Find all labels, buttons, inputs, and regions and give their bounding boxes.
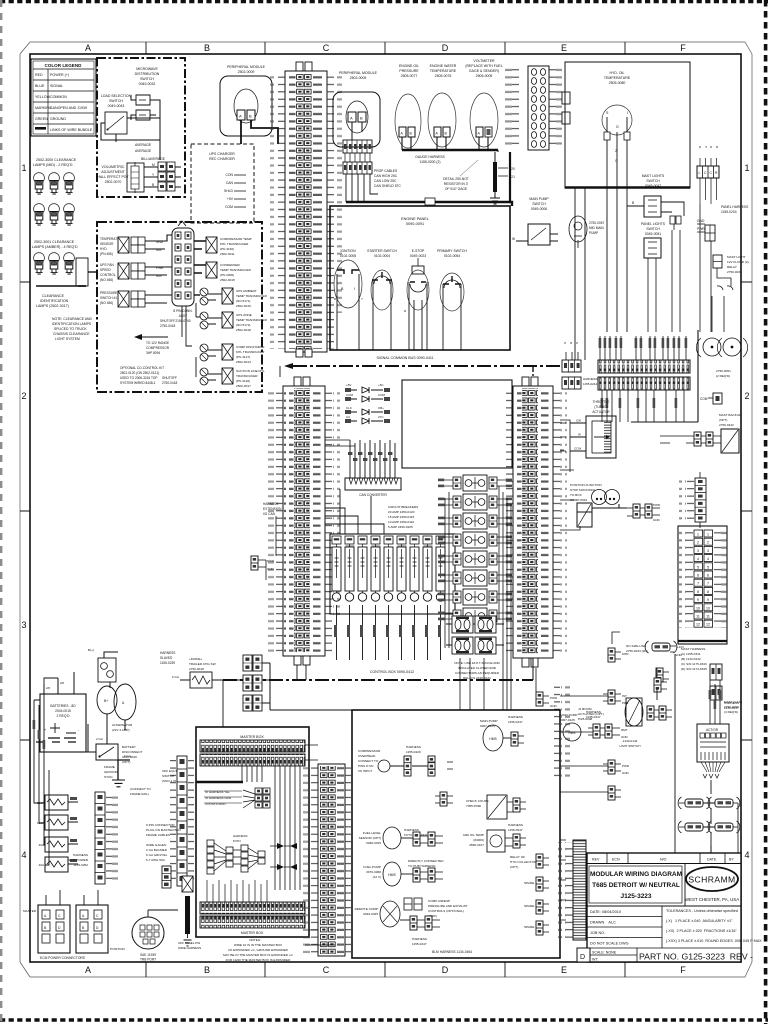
fuel level sensor	[383, 827, 401, 849]
svg-text:(PN 4160): (PN 4160)	[220, 247, 234, 251]
svg-text:SAE J1939: SAE J1939	[140, 953, 156, 957]
svg-text:D: D	[442, 965, 449, 975]
svg-text:COMPRESSOR TEMP: COMPRESSOR TEMP	[220, 237, 252, 241]
svg-text:NO SIZE LINK: NO SIZE LINK	[626, 644, 647, 648]
svg-text:(4 REQ'D): (4 REQ'D)	[724, 710, 738, 714]
svg-text:2502-0070: 2502-0070	[105, 180, 122, 184]
svg-text:GND: GND	[622, 771, 630, 775]
position function stop	[570, 483, 661, 527]
svg-text:TEMPERATURE: TEMPERATURE	[430, 69, 457, 73]
svg-text:C21: C21	[509, 175, 515, 179]
svg-text:2502-3000 CLEARANCE: 2502-3000 CLEARANCE	[36, 158, 77, 162]
svg-text:9: 9	[697, 598, 699, 602]
svg-text:8: 8	[697, 590, 699, 594]
svg-text:ALTERNATOR: ALTERNATOR	[112, 723, 133, 727]
svg-text:DATE: DATE	[707, 858, 717, 862]
svg-text:EXTENSION: EXTENSION	[263, 507, 282, 511]
svg-text:(OPT): (OPT)	[719, 418, 727, 422]
suction line transducer	[200, 368, 208, 376]
trailer chg diode fuse	[172, 657, 223, 688]
svg-text:6 GA GRN/YEL: 6 GA GRN/YEL	[146, 853, 168, 857]
svg-text:IDENTIFICATION LAMPS: IDENTIFICATION LAMPS	[52, 322, 92, 326]
svg-text:UPS ZONE: UPS ZONE	[236, 313, 252, 317]
svg-text:20 AMP 2450-0120: 20 AMP 2450-0120	[388, 510, 415, 514]
svg-text:RELAY: RELAY	[727, 265, 737, 269]
svg-text:CW: CW	[576, 419, 581, 423]
D-section box	[352, 710, 560, 958]
top connector rows	[200, 740, 305, 752]
svg-text:ENGINE WATER: ENGINE WATER	[430, 64, 457, 68]
svg-text:HARNESS: HARNESS	[160, 651, 175, 655]
svg-text:MTL TRANSDUCER: MTL TRANSDUCER	[236, 350, 265, 354]
svg-text:HARNESS: HARNESS	[263, 502, 278, 506]
svg-text:UPS FAN: UPS FAN	[100, 263, 114, 267]
svg-text:E: E	[561, 965, 567, 975]
svg-text:FRAME CABLES: FRAME CABLES	[146, 833, 170, 837]
svg-text:2502-0018: 2502-0018	[236, 328, 251, 332]
svg-text:8 PIN CONN.: 8 PIN CONN.	[173, 309, 192, 313]
gauge: engine oil pressure	[395, 64, 421, 150]
svg-text:3: 3	[21, 620, 26, 630]
2502-0007 marker	[608, 648, 615, 662]
extra terminal strip wires	[615, 336, 681, 360]
comp discharge transducer	[200, 344, 208, 352]
svg-text:12V FLOOD (2): 12V FLOOD (2)	[727, 260, 749, 264]
svg-text:B: B	[632, 201, 634, 205]
svg-text:HYD COLLECTOR: HYD COLLECTOR	[510, 860, 537, 864]
title block	[577, 853, 762, 962]
diode row D1	[345, 383, 390, 393]
svg-text:HYD: HYD	[100, 247, 107, 251]
svg-text:CAN: CAN	[226, 181, 234, 185]
UPS charger dashed box	[191, 144, 254, 223]
alternator	[96, 684, 136, 744]
svg-text:1: 1	[21, 163, 26, 173]
svg-text:CAN LOW 25C: CAN LOW 25C	[374, 179, 397, 183]
svg-text:DIRECTLY CONNECTED: DIRECTLY CONNECTED	[408, 859, 444, 863]
svg-text:2505-0005: 2505-0005	[476, 74, 493, 78]
svg-text:PWR: PWR	[622, 764, 630, 768]
svg-text:HARNESS: HARNESS	[412, 937, 427, 941]
svg-text:12: 12	[696, 623, 700, 627]
svg-text:6: 6	[707, 574, 709, 578]
svg-text:0090-0091: 0090-0091	[406, 222, 424, 226]
svg-text:2: 2	[21, 391, 26, 401]
svg-text:CLK: CLK	[346, 406, 352, 410]
svg-text:2750-0018: 2750-0018	[189, 667, 204, 671]
svg-text:B: B	[569, 342, 573, 344]
svg-text:TEMP TRANSDUCER: TEMP TRANSDUCER	[236, 294, 268, 298]
svg-text:2502-0011: 2502-0011	[220, 252, 235, 256]
svg-text:D: D	[442, 43, 449, 53]
svg-text:2750-0067: 2750-0067	[589, 221, 604, 225]
optional kit note	[120, 366, 164, 385]
svg-text:NOTE: USE 18-8 T-SPLICE AND: NOTE: USE 18-8 T-SPLICE AND	[454, 661, 500, 665]
svg-text:0049-0042: 0049-0042	[645, 184, 661, 188]
engine panel box	[330, 206, 510, 350]
clearance lamps 2502-3000 (mid)	[32, 158, 78, 249]
svg-text:(.XXX) 3 PLACE ±.010 ROUND ED: (.XXX) 3 PLACE ±.010 ROUND EDGES .005/.0…	[666, 939, 762, 943]
svg-text:BLUE: BLUE	[35, 84, 45, 88]
svg-text:B: B	[249, 114, 252, 119]
svg-text:ECM POWER CONNECTORS: ECM POWER CONNECTORS	[40, 956, 86, 960]
svg-text:4: 4	[21, 850, 26, 860]
svg-text:HYD. OIL: HYD. OIL	[610, 71, 625, 75]
9-pin deutsch notes	[146, 823, 181, 862]
svg-text:2: 2	[707, 541, 709, 545]
svg-text:MAST BACKUP: MAST BACKUP	[719, 413, 741, 417]
svg-text:SWITCH: SWITCH	[646, 227, 660, 231]
svg-text:WIRE 10 IS IN THE MASTER BOX: WIRE 10 IS IN THE MASTER BOX	[234, 943, 282, 947]
compressor temp transducer	[194, 241, 206, 249]
svg-text:F: F	[680, 965, 686, 975]
svg-text:2502-0009: 2502-0009	[350, 76, 367, 80]
svg-text:T685 DETROIT W/ NEUTRAL: T685 DETROIT W/ NEUTRAL	[592, 882, 680, 889]
svg-text:HARNESS: HARNESS	[724, 701, 739, 705]
svg-text:STOP MOUNTED: STOP MOUNTED	[570, 488, 596, 492]
svg-text:0049-0032: 0049-0032	[139, 82, 156, 86]
svg-text:TRANSDUCER: TRANSDUCER	[236, 374, 258, 378]
svg-text:2004-0015: 2004-0015	[55, 709, 71, 713]
svg-text:SPARE: SPARE	[524, 925, 534, 929]
feed wires into control box	[325, 489, 384, 534]
remote compressor	[380, 901, 400, 927]
svg-text:WT:: WT:	[592, 958, 598, 962]
svg-text:SPARE: SPARE	[524, 904, 534, 908]
svg-text:LAMPS (2502-3017): LAMPS (2502-3017)	[36, 304, 69, 308]
fuel pump	[383, 862, 401, 886]
svg-text:MODULAR WIRING DIAGRAM: MODULAR WIRING DIAGRAM	[590, 871, 682, 878]
battery disconnect	[86, 724, 143, 764]
svg-text:SPEED: SPEED	[100, 268, 112, 272]
svg-text:15 AMP 2450-0115: 15 AMP 2450-0115	[388, 515, 414, 519]
svg-text:1: 1	[697, 533, 699, 537]
svg-text:BATTERIES - 8D: BATTERIES - 8D	[50, 704, 76, 708]
svg-text:6 GA: 6 GA	[124, 754, 131, 758]
svg-text:PINS 8 ON: PINS 8 ON	[358, 764, 373, 768]
svg-text:WIRE HARNESS: WIRE HARNESS	[178, 946, 201, 950]
relay hyd collector	[510, 855, 537, 869]
svg-text:IGNITION: IGNITION	[340, 249, 356, 253]
panel connector L C C R	[697, 146, 749, 241]
svg-text:B: B	[204, 43, 210, 53]
svg-text:(.XX) 2 PLACE ±.020 FRACTION: (.XX) 2 PLACE ±.020 FRACTIONS ±1/16"	[666, 929, 737, 933]
svg-text:ACT/OR: ACT/OR	[706, 728, 719, 732]
svg-text:DISTRIBUTION: DISTRIBUTION	[135, 72, 160, 76]
svg-text:OVERHEAD: OVERHEAD	[358, 754, 376, 758]
svg-text:5: 5	[697, 565, 699, 569]
svg-text:0102-0004: 0102-0004	[374, 254, 390, 258]
svg-text:E-STOP: E-STOP	[412, 249, 425, 253]
svg-text:LIMIT SWITCH: LIMIT SWITCH	[620, 744, 641, 748]
pot connector grid	[158, 162, 175, 191]
svg-text:7055-P090: 7055-P090	[466, 804, 481, 808]
svg-text:RED: RED	[35, 73, 43, 77]
svg-text:B: B	[152, 183, 154, 187]
svg-text:SIGNAL COMMON BUS 0090-0411: SIGNAL COMMON BUS 0090-0411	[376, 356, 433, 360]
svg-text:IDENTIFICATION: IDENTIFICATION	[40, 299, 69, 303]
terminal strip TB1	[598, 360, 690, 373]
svg-text:CONTROL BOX 0090-0412: CONTROL BOX 0090-0412	[370, 670, 414, 674]
svg-text:C: C	[323, 43, 330, 53]
bottom connector rows	[200, 902, 305, 914]
gauge: voltmeter (replace with fuel gage)	[465, 59, 502, 150]
svg-text:SENSOR: SENSOR	[100, 242, 114, 246]
svg-text:(D) S/N 1173-0345: (D) S/N 1173-0345	[681, 667, 707, 671]
stubs below	[242, 766, 262, 782]
svg-text:COLOR LEGEND: COLOR LEGEND	[44, 63, 82, 68]
svg-text:4: 4	[697, 557, 699, 561]
signal common bus	[284, 356, 560, 378]
wires sensors to conn	[155, 235, 172, 303]
wires D box to E column	[560, 696, 608, 920]
svg-text:RELAY OF: RELAY OF	[510, 855, 525, 859]
svg-text:DRAWN ALC: DRAWN ALC	[590, 921, 616, 925]
svg-text:TOLERANCES - Unless otherwise: TOLERANCES - Unless otherwise specified	[666, 909, 738, 913]
fan-out block 1	[243, 790, 255, 808]
svg-text:A: A	[85, 965, 91, 975]
svg-text:SHLD: SHLD	[224, 189, 234, 193]
svg-text:2502-0015: 2502-0015	[220, 278, 235, 282]
svg-text:FOR 10/20 THE MASTER BOX IS EX: FOR 10/20 THE MASTER BOX IS EXPANDED	[226, 958, 291, 962]
svg-text:DO NOT SCALE DWG: DO NOT SCALE DWG	[590, 942, 629, 946]
svg-text:CIRCUIT BREAKERS: CIRCUIT BREAKERS	[388, 505, 418, 509]
svg-text:0049-0023: 0049-0023	[410, 254, 426, 258]
svg-text:W: W	[512, 237, 515, 241]
svg-text:PRESSURE AND EXHAUST: PRESSURE AND EXHAUST	[428, 904, 468, 908]
svg-text:WIRE GAGES:: WIRE GAGES:	[146, 843, 167, 847]
svg-text:1155-0447: 1155-0447	[508, 720, 523, 724]
svg-text:1155-0200 (2): 1155-0200 (2)	[419, 160, 440, 164]
svg-text:TRAILER CHG SW: TRAILER CHG SW	[189, 662, 216, 666]
svg-text:2505-0080: 2505-0080	[609, 81, 626, 85]
svg-text:(12 V): (12 V)	[373, 875, 381, 879]
gauge: engine water temperature	[428, 64, 457, 150]
svg-text:2505-0075: 2505-0075	[435, 74, 452, 78]
bottom row	[577, 948, 590, 962]
svg-text:I/O INPUT: I/O INPUT	[358, 769, 372, 773]
svg-text:LAMPS (MID) - 2 REQ'D: LAMPS (MID) - 2 REQ'D	[33, 163, 73, 167]
diode row D4	[345, 415, 390, 424]
svg-text:A: A	[239, 114, 242, 119]
optional co-control kit box (dash-dot)	[97, 221, 268, 392]
svg-text:I: I	[354, 287, 355, 291]
clearance lamps 2502-3001 (amber)	[34, 253, 97, 341]
svg-text:CONNECTORS AS REQUIRED: CONNECTORS AS REQUIRED	[455, 671, 500, 675]
svg-text:IO HARNESS GRN: IO HARNESS GRN	[205, 796, 231, 800]
header row	[587, 863, 741, 865]
svg-text:FRAME RAIL): FRAME RAIL)	[130, 792, 149, 796]
svg-text:COM: COM	[378, 393, 386, 397]
svg-text:SHUTOFF: SHUTOFF	[160, 319, 175, 323]
svg-text:2502-0009: 2502-0009	[238, 70, 255, 74]
indicator lamps	[592, 490, 607, 505]
J1939 diagnostic connector	[132, 910, 178, 962]
svg-text:VOLTMETER: VOLTMETER	[473, 59, 495, 63]
svg-text:SPLICED TO TRUCK: SPLICED TO TRUCK	[54, 327, 87, 331]
svg-text:W: W	[578, 433, 581, 437]
svg-text:1: 1	[707, 533, 709, 537]
svg-text:1155-0947: 1155-0947	[508, 828, 523, 832]
svg-text:7: 7	[707, 582, 709, 586]
svg-text:AVERAGE: AVERAGE	[135, 143, 152, 147]
wire bus S1 left arrow to S2	[279, 366, 281, 377]
svg-text:LOAD SELECTION: LOAD SELECTION	[101, 94, 132, 98]
ECM power pin strip	[69, 792, 120, 884]
svg-text:MAST HARNESS: MAST HARNESS	[681, 647, 705, 651]
notes block	[223, 938, 294, 962]
svg-text:PANEL HARNESS: PANEL HARNESS	[721, 205, 749, 209]
svg-text:2502-0013: 2502-0013	[236, 360, 251, 364]
limit switch J1 boom	[578, 668, 672, 748]
svg-text:A: A	[85, 43, 91, 53]
resistor R1 bar	[493, 162, 497, 192]
svg-text:K: K	[575, 342, 579, 344]
wires master box to SL strip	[305, 745, 335, 945]
svg-text:2 GA: 2 GA	[96, 737, 103, 741]
svg-text:DATE: 08/04/2010: DATE: 08/04/2010	[590, 910, 621, 914]
svg-text:G: G	[616, 125, 619, 129]
svg-text:PERIPHERAL MODULE: PERIPHERAL MODULE	[227, 65, 266, 69]
svg-text:COM: COM	[700, 397, 708, 401]
svg-text:SWITCH: SWITCH	[109, 99, 123, 103]
mast flood lamps	[696, 255, 748, 378]
svg-text:SPARE: SPARE	[524, 881, 534, 885]
svg-text:MID MAIN: MID MAIN	[589, 226, 604, 230]
detail resistor note	[443, 152, 515, 204]
svg-text:I/O CAN: I/O CAN	[263, 512, 276, 516]
mast lights switch	[627, 174, 684, 217]
wires	[101, 95, 160, 160]
page trim dashed borders	[0, 0, 768, 3]
link pair row 1	[678, 797, 740, 824]
svg-text:1155-0252: 1155-0252	[73, 863, 88, 867]
wires below terminal strips	[601, 330, 698, 422]
svg-text:1155-0239: 1155-0239	[160, 661, 175, 665]
svg-text:SENSOR (OPT): SENSOR (OPT)	[359, 836, 381, 840]
svg-text:MID OIL TEMP: MID OIL TEMP	[463, 833, 484, 837]
svg-text:2/0: 2/0	[60, 681, 65, 685]
svg-text:BLM HARNESS 1134-0454: BLM HARNESS 1134-0454	[432, 950, 472, 954]
svg-text:HARNESS: HARNESS	[508, 715, 523, 719]
svg-text:(NO 456): (NO 456)	[100, 301, 113, 305]
svg-text:2750-0442: 2750-0442	[719, 423, 734, 427]
svg-text:HMS: HMS	[489, 737, 497, 741]
svg-text:CON: CON	[225, 173, 233, 177]
svg-text:MAY BE IN THE MASTER BOX IS EX: MAY BE IN THE MASTER BOX IS EXPANDED +C	[223, 953, 294, 957]
logo	[686, 867, 738, 891]
peripheral module U1 2502-0009	[220, 65, 278, 144]
panel lights switch	[641, 216, 681, 258]
svg-text:RESISTOR IN 3': RESISTOR IN 3'	[444, 182, 469, 186]
wire from bus2 to master box	[222, 680, 224, 727]
svg-text:2 REQ'D: 2 REQ'D	[57, 714, 71, 718]
microwave distribution switch	[136, 95, 150, 120]
batteries	[36, 672, 86, 752]
svg-text:11: 11	[706, 615, 710, 619]
svg-text:2750-0051: 2750-0051	[716, 369, 731, 373]
svg-text:PWR: PWR	[653, 503, 661, 507]
svg-text:PROP CABLES: PROP CABLES	[374, 169, 398, 173]
svg-text:2: 2	[697, 541, 699, 545]
svg-text:SHUTOFF: SHUTOFF	[162, 376, 177, 380]
svg-text:ECM POWER: ECM POWER	[69, 858, 89, 862]
aux connector grids	[223, 655, 270, 711]
svg-text:B+: B+	[104, 699, 108, 703]
svg-text:BY: BY	[729, 858, 734, 862]
pressure switch	[100, 291, 118, 305]
svg-text:SYSTEM WIRED 8448-1: SYSTEM WIRED 8448-1	[120, 381, 156, 385]
svg-text:CONDENSER: CONDENSER	[220, 263, 241, 267]
svg-text:ENGINE PANEL: ENGINE PANEL	[401, 217, 429, 221]
svg-text:PRESSURE: PRESSURE	[399, 69, 419, 73]
svg-text:POWER (+): POWER (+)	[50, 73, 69, 77]
svg-text:8 PIN: 8 PIN	[233, 839, 241, 843]
check coupe	[487, 795, 507, 819]
peripheral module U2 2502-0009	[333, 71, 512, 206]
svg-text:ENGINE OIL: ENGINE OIL	[399, 64, 419, 68]
junction rect (control compartment)	[402, 380, 512, 468]
relay bank K1-K10	[438, 475, 512, 680]
svg-text:CAN SHIELD 5TC: CAN SHIELD 5TC	[374, 184, 402, 188]
svg-text:1155-0204: 1155-0204	[721, 210, 737, 214]
no size link	[626, 641, 684, 700]
svg-text:ASSY: ASSY	[179, 314, 188, 318]
svg-text:2502-3001 CLEARANCE: 2502-3001 CLEARANCE	[34, 240, 75, 244]
diode row D3	[345, 406, 390, 415]
svg-text:HARNESS: HARNESS	[508, 823, 523, 827]
svg-text:HARNESS: HARNESS	[233, 834, 248, 838]
svg-text:NOTES:: NOTES:	[249, 938, 261, 942]
frame ground stud	[104, 754, 151, 796]
svg-text:B(+): B(+)	[88, 648, 94, 652]
svg-text:G: G	[615, 159, 618, 163]
terminal strip TB2	[598, 377, 690, 390]
svg-text:INSULATED CLOSED END: INSULATED CLOSED END	[458, 666, 497, 670]
condenser transducer	[194, 265, 206, 273]
small pin column	[162, 866, 171, 888]
svg-text:GND: GND	[697, 219, 705, 223]
svg-text:SCHRAMM: SCHRAMM	[688, 875, 735, 885]
svg-text:CA: CA	[346, 415, 350, 419]
svg-text:27C: 27C	[378, 415, 384, 419]
svg-text:REMOTE COMP: REMOTE COMP	[355, 907, 378, 911]
harness connector A/T/B pair	[562, 342, 598, 389]
to compressor arrow	[142, 336, 168, 338]
svg-text:LIGHT SYSTEM: LIGHT SYSTEM	[55, 337, 80, 341]
throttle actuator	[560, 400, 616, 458]
svg-text:PUMP: PUMP	[589, 231, 598, 235]
mid oil temp	[487, 830, 505, 852]
svg-text:7: 7	[697, 582, 699, 586]
svg-text:GND: GND	[267, 567, 275, 571]
svg-text:POSITION FUNCTION: POSITION FUNCTION	[570, 483, 602, 487]
D box right edge pins	[554, 682, 560, 777]
svg-text:SUCTION LINE MTL: SUCTION LINE MTL	[236, 369, 265, 373]
8 pin connector assembly	[172, 221, 194, 323]
relay bank collector wires	[499, 486, 511, 710]
svg-text:TO 12V RANGE: TO 12V RANGE	[146, 341, 169, 345]
ups fan speed control	[100, 263, 116, 282]
load selection switch	[105, 112, 127, 134]
vertical link wires right area	[657, 688, 675, 853]
svg-text:MAST LIGHT: MAST LIGHT	[727, 255, 746, 259]
svg-text:(REPLACE WITH FUEL: (REPLACE WITH FUEL	[465, 64, 502, 68]
oval pin connector block	[505, 66, 570, 150]
svg-text:C20: C20	[509, 167, 515, 171]
svg-text:STUD: STUD	[104, 775, 113, 779]
svg-text:CAN HIGH 25C: CAN HIGH 25C	[374, 174, 398, 178]
